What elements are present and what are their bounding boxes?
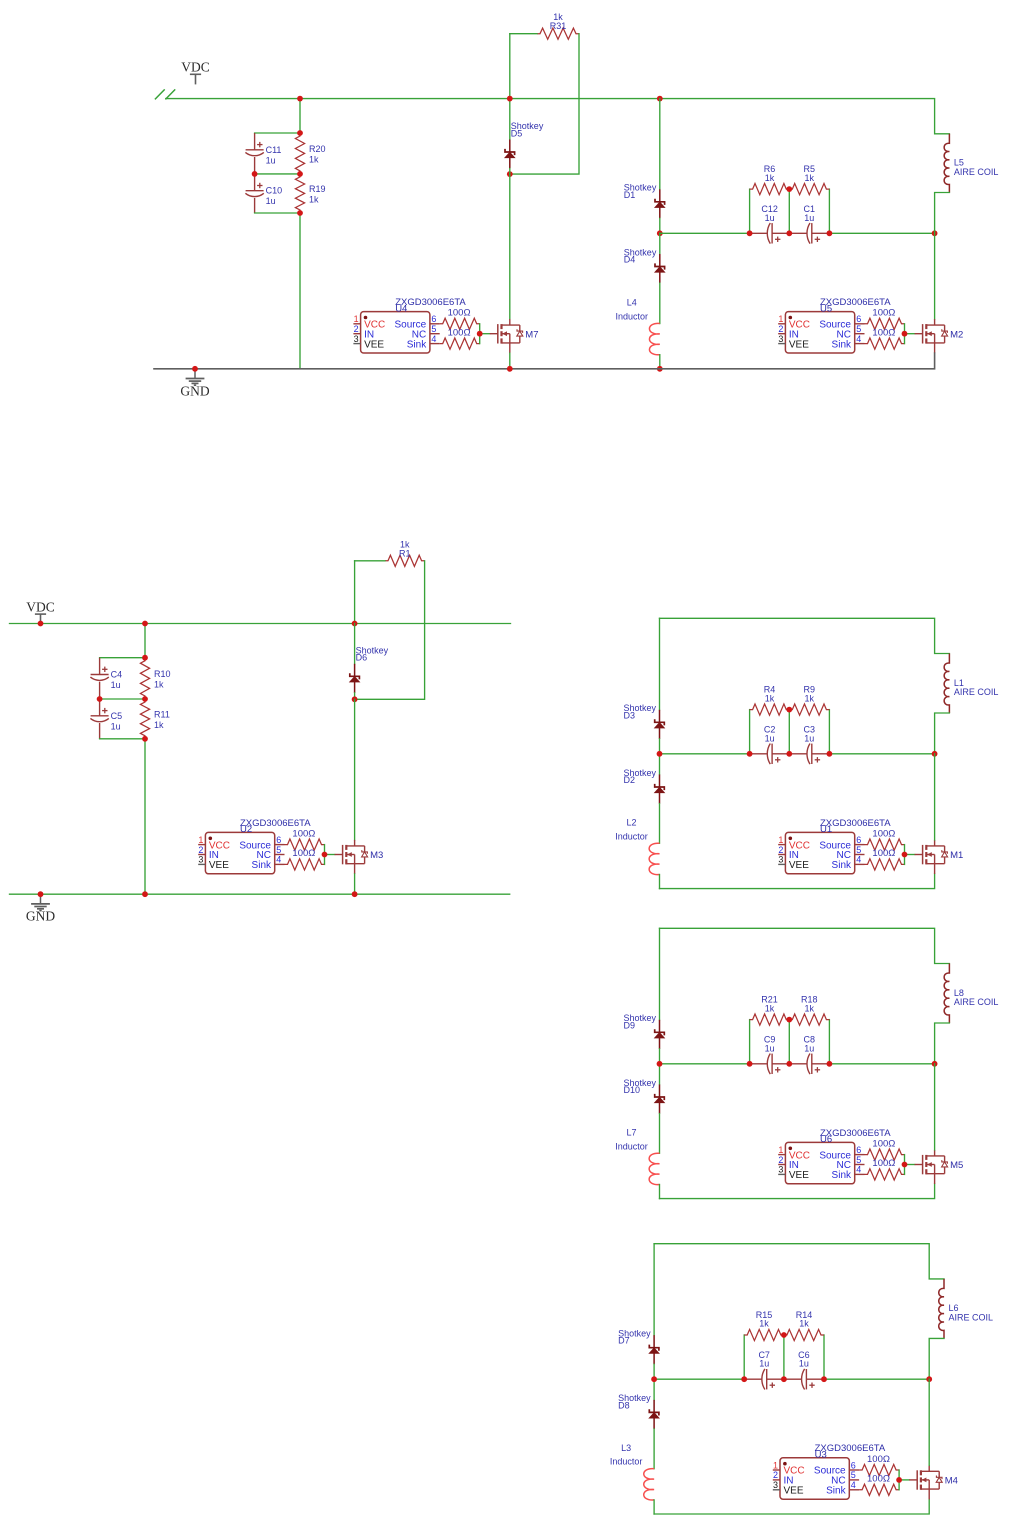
svg-text:L4: L4: [627, 298, 637, 308]
schottky diode D5: [505, 121, 544, 169]
svg-text:100Ω: 100Ω: [448, 327, 471, 338]
svg-text:1k: 1k: [799, 1319, 809, 1329]
svg-text:1u: 1u: [765, 1043, 775, 1053]
svg-text:D1: D1: [624, 190, 636, 200]
svg-text:L6: L6: [949, 1303, 959, 1313]
driver IC U3 (ZXGD3006E6TA): [773, 1443, 886, 1499]
resistor R_bot 100 ohm: [859, 1474, 899, 1496]
wire: [653, 1379, 655, 1400]
wire: [355, 561, 425, 700]
resistor R_bot 100 ohm: [865, 327, 905, 349]
svg-text:L2: L2: [626, 818, 636, 828]
resistor R21: [750, 994, 790, 1025]
schottky diode D6: [350, 645, 389, 693]
svg-text:5: 5: [276, 845, 281, 855]
wire: [928, 1379, 930, 1465]
wire: [828, 1020, 830, 1064]
wire: [354, 874, 356, 894]
wire: [654, 1499, 929, 1514]
wire: [905, 854, 915, 856]
wire: [934, 233, 936, 319]
junction: [142, 655, 148, 661]
svg-text:VEE: VEE: [789, 860, 809, 871]
svg-text:3: 3: [773, 1480, 778, 1490]
svg-text:R20: R20: [309, 144, 326, 154]
resistor R20: [295, 133, 325, 174]
svg-text:1u: 1u: [111, 680, 121, 690]
wire: [480, 333, 490, 335]
svg-text:1: 1: [778, 1145, 783, 1155]
wire - node VDC rail: [166, 99, 950, 134]
junction: [651, 1376, 657, 1382]
wire: [929, 1338, 944, 1379]
svg-text:1k: 1k: [309, 194, 319, 204]
svg-text:L7: L7: [626, 1128, 636, 1138]
svg-text:1k: 1k: [154, 720, 164, 730]
resistor R6: [750, 164, 790, 195]
wire: [255, 212, 300, 214]
schottky diode D8: [618, 1393, 659, 1429]
wire: [509, 169, 511, 175]
wire: [354, 693, 356, 699]
svg-text:D4: D4: [624, 255, 636, 265]
svg-text:4: 4: [856, 334, 861, 344]
resistor R31: [537, 12, 579, 39]
air coil L1: [944, 654, 998, 714]
resistor R11: [140, 699, 169, 739]
svg-text:D6: D6: [356, 653, 368, 663]
capacitor C5: [90, 699, 122, 739]
svg-text:100Ω: 100Ω: [872, 308, 895, 319]
power flag VDC: [26, 599, 55, 623]
junction: [741, 1376, 747, 1382]
wire: [828, 710, 830, 754]
wire: [510, 34, 579, 174]
wire: [659, 355, 661, 369]
resistor R18: [789, 994, 829, 1025]
wire: [934, 754, 936, 840]
inductor L7: [615, 1128, 659, 1185]
svg-text:Sink: Sink: [252, 860, 272, 871]
wire: [653, 1244, 655, 1336]
junction: [932, 230, 938, 236]
capacitor C8: [789, 1035, 829, 1074]
capacitor C1: [789, 204, 829, 243]
svg-text:U4: U4: [395, 303, 407, 314]
svg-text:1k: 1k: [805, 1003, 815, 1013]
wire: [660, 232, 750, 234]
junction: [192, 366, 198, 372]
junction: [902, 1162, 908, 1168]
junction: [38, 891, 44, 897]
junction: [297, 96, 303, 102]
wire: [100, 657, 145, 659]
junction: [252, 171, 258, 177]
wire - node GND rail: [154, 353, 935, 369]
svg-text:1u: 1u: [804, 213, 814, 223]
junction: [507, 96, 513, 102]
svg-text:VEE: VEE: [789, 339, 809, 350]
svg-text:U6: U6: [820, 1134, 832, 1145]
svg-text:1u: 1u: [765, 213, 775, 223]
wire: [829, 753, 934, 755]
capacitor C3: [789, 725, 829, 764]
junction: [896, 1477, 902, 1483]
junction: [786, 707, 792, 713]
svg-text:100Ω: 100Ω: [448, 308, 471, 319]
svg-text:100Ω: 100Ω: [872, 829, 895, 840]
svg-text:5: 5: [431, 324, 436, 334]
svg-text:6: 6: [431, 314, 436, 324]
wire: [659, 875, 661, 889]
svg-text:M1: M1: [950, 850, 963, 861]
wire: [788, 189, 790, 233]
svg-text:Inductor: Inductor: [616, 312, 649, 322]
svg-text:Inductor: Inductor: [615, 831, 648, 841]
wire: [935, 193, 950, 234]
transistor M4: [909, 1465, 958, 1499]
schottky diode D2: [624, 768, 665, 804]
svg-text:5: 5: [856, 324, 861, 334]
capacitor C4: [90, 658, 122, 699]
junction: [926, 1376, 932, 1382]
wire: [659, 754, 661, 775]
svg-text:Inductor: Inductor: [610, 1457, 643, 1467]
air coil L8: [944, 964, 998, 1024]
svg-text:M5: M5: [950, 1160, 963, 1171]
svg-text:1: 1: [354, 314, 359, 324]
inductor L4: [616, 298, 660, 355]
junction: [322, 852, 328, 858]
junction: [38, 621, 44, 627]
wire: [659, 233, 661, 254]
junction: [352, 621, 358, 627]
wire VDC rail 2: [10, 623, 511, 625]
wire: [355, 560, 385, 562]
transistor M7: [490, 319, 539, 353]
svg-text:VDC: VDC: [26, 599, 55, 614]
svg-text:C4: C4: [111, 670, 123, 680]
ground: [180, 369, 209, 399]
resistor R9: [789, 684, 829, 715]
capacitor C7: [744, 1350, 784, 1389]
svg-text:C11: C11: [266, 145, 282, 155]
transistor M5: [915, 1150, 964, 1184]
junction: [657, 230, 663, 236]
svg-text:D10: D10: [624, 1085, 641, 1095]
capacitor C9: [750, 1035, 790, 1074]
svg-text:U2: U2: [240, 824, 252, 835]
wire: [905, 333, 915, 335]
svg-text:D9: D9: [624, 1020, 636, 1030]
driver IC U4 (ZXGD3006E6TA): [353, 297, 466, 353]
driver IC U5 (ZXGD3006E6TA): [778, 297, 891, 353]
wire: [100, 738, 145, 740]
resistor R_top 100 ohm: [865, 1139, 905, 1161]
svg-text:1u: 1u: [111, 721, 121, 731]
wire: [144, 739, 146, 894]
wire: [325, 854, 335, 856]
wire: [660, 1184, 935, 1199]
wire: [904, 324, 906, 344]
svg-text:R19: R19: [309, 184, 326, 194]
junction: [781, 1376, 787, 1382]
svg-text:D8: D8: [618, 1400, 630, 1410]
junction: [747, 1061, 753, 1067]
svg-text:Sink: Sink: [407, 339, 427, 350]
wire: [100, 698, 145, 700]
air coil L6: [939, 1279, 993, 1339]
wire: [659, 739, 661, 754]
capacitor C2: [750, 725, 790, 764]
junction: [827, 230, 833, 236]
driver IC U1 (ZXGD3006E6TA): [778, 818, 891, 874]
transistor M2: [915, 319, 964, 353]
junction: [827, 1061, 833, 1067]
svg-text:C10: C10: [266, 186, 283, 196]
svg-text:1k: 1k: [765, 693, 775, 703]
ground: [26, 894, 55, 924]
wire: [510, 33, 537, 35]
svg-text:U1: U1: [820, 824, 832, 835]
junction: [932, 1061, 938, 1067]
junction: [786, 751, 792, 757]
junction: [747, 230, 753, 236]
wire: [660, 874, 935, 889]
wire: [935, 713, 950, 754]
capacitor C6: [784, 1350, 824, 1389]
wire: [659, 804, 661, 844]
transistor M3: [335, 840, 384, 874]
wire: [749, 189, 751, 233]
wire: [659, 1185, 661, 1199]
wire: [659, 218, 661, 233]
svg-text:3: 3: [778, 855, 783, 865]
svg-text:4: 4: [851, 1480, 856, 1490]
wire: [823, 1335, 825, 1379]
wire: [905, 1164, 915, 1166]
wire: [824, 1378, 929, 1380]
svg-text:1k: 1k: [765, 1003, 775, 1013]
junction: [657, 96, 663, 102]
svg-text:1: 1: [778, 835, 783, 845]
junction: [786, 230, 792, 236]
resistor R10: [140, 658, 170, 699]
svg-text:AIRE COIL: AIRE COIL: [954, 687, 999, 697]
schottky diode D1: [624, 183, 665, 219]
svg-text:U5: U5: [820, 303, 832, 314]
wire: [654, 1244, 944, 1279]
wire: [898, 1470, 900, 1490]
wire: [783, 1335, 785, 1379]
svg-text:100Ω: 100Ω: [867, 1474, 890, 1485]
resistor R4: [750, 684, 790, 715]
svg-text:M4: M4: [945, 1476, 958, 1487]
wire: [788, 1020, 790, 1064]
bus entry slashes: [155, 89, 165, 99]
svg-text:1k: 1k: [765, 173, 775, 183]
wire: [654, 1378, 744, 1380]
wire: [255, 132, 300, 134]
svg-text:100Ω: 100Ω: [872, 327, 895, 338]
inductor L2: [615, 818, 659, 875]
wire: [354, 561, 356, 624]
wire: [749, 1020, 751, 1064]
svg-text:3: 3: [778, 1165, 783, 1175]
svg-text:6: 6: [851, 1460, 856, 1470]
junction: [902, 852, 908, 858]
svg-text:L3: L3: [621, 1443, 631, 1453]
wire: [479, 324, 481, 344]
capacitor C12: [750, 204, 790, 243]
svg-text:1k: 1k: [309, 154, 319, 164]
wire: [660, 753, 750, 755]
svg-text:U3: U3: [815, 1450, 827, 1461]
svg-text:5: 5: [856, 845, 861, 855]
schottky diode D10: [624, 1078, 665, 1114]
svg-text:D5: D5: [511, 128, 523, 138]
wire: [829, 1063, 934, 1065]
resistor R_top 100 ohm: [440, 308, 480, 330]
svg-text:C5: C5: [111, 711, 123, 721]
wire: [904, 1155, 906, 1175]
resistor R_top 100 ohm: [285, 829, 325, 851]
driver IC U2 (ZXGD3006E6TA): [198, 818, 311, 874]
wire: [299, 99, 301, 133]
wire: [660, 1063, 750, 1065]
svg-text:3: 3: [778, 334, 783, 344]
svg-text:100Ω: 100Ω: [872, 848, 895, 859]
wire: [653, 1364, 655, 1379]
svg-text:1k: 1k: [154, 679, 164, 689]
junction: [297, 171, 303, 177]
svg-text:Sink: Sink: [832, 1170, 852, 1181]
junction: [507, 171, 513, 177]
junction: [786, 186, 792, 192]
svg-text:M7: M7: [525, 329, 538, 340]
svg-text:Sink: Sink: [832, 339, 852, 350]
svg-text:4: 4: [856, 855, 861, 865]
svg-text:1u: 1u: [266, 196, 276, 206]
resistor R_bot 100 ohm: [865, 1158, 905, 1180]
svg-text:1k: 1k: [805, 173, 815, 183]
junction: [97, 696, 103, 702]
svg-text:1u: 1u: [804, 1043, 814, 1053]
junction: [932, 751, 938, 757]
wire: [509, 353, 511, 369]
resistor R_top 100 ohm: [865, 308, 905, 330]
capacitor C10: [245, 174, 282, 213]
resistor R5: [789, 164, 829, 195]
junction: [352, 891, 358, 897]
wire: [255, 173, 300, 175]
resistor R_bot 100 ohm: [285, 848, 325, 870]
svg-text:6: 6: [276, 835, 281, 845]
svg-text:1k: 1k: [805, 693, 815, 703]
svg-text:1u: 1u: [266, 155, 276, 165]
junction: [142, 696, 148, 702]
wire: [659, 928, 661, 1020]
power flag VDC: [181, 60, 210, 85]
junction: [507, 366, 513, 372]
wire: [749, 710, 751, 754]
wire GND rail 2: [10, 893, 510, 895]
svg-text:100Ω: 100Ω: [867, 1454, 890, 1465]
svg-text:VEE: VEE: [784, 1486, 804, 1497]
svg-text:R11: R11: [154, 709, 170, 719]
svg-text:D2: D2: [624, 775, 636, 785]
wire: [659, 618, 661, 710]
wire: [934, 1064, 936, 1150]
wire: [935, 1023, 950, 1064]
wire: [828, 189, 830, 233]
wire: [509, 99, 511, 140]
resistor R14: [784, 1310, 824, 1341]
junction: [142, 891, 148, 897]
wire: [659, 1064, 661, 1085]
wire: [354, 699, 356, 840]
svg-text:5: 5: [851, 1470, 856, 1480]
svg-text:AIRE COIL: AIRE COIL: [954, 167, 999, 177]
svg-text:4: 4: [856, 1165, 861, 1175]
junction: [827, 751, 833, 757]
svg-text:R31: R31: [550, 21, 567, 31]
schottky diode D9: [624, 1013, 665, 1049]
svg-text:2: 2: [778, 324, 783, 334]
svg-text:1k: 1k: [400, 539, 410, 549]
svg-text:5: 5: [856, 1155, 861, 1165]
svg-text:1: 1: [778, 314, 783, 324]
junction: [781, 1332, 787, 1338]
svg-text:GND: GND: [180, 383, 209, 398]
junction: [786, 1017, 792, 1023]
resistor R_bot 100 ohm: [440, 327, 480, 349]
wire: [659, 1049, 661, 1064]
svg-text:1k: 1k: [553, 12, 563, 22]
svg-text:1: 1: [773, 1460, 778, 1470]
svg-text:1u: 1u: [759, 1359, 769, 1369]
svg-text:VDC: VDC: [181, 60, 210, 75]
junction: [902, 331, 908, 337]
resistor R1: [385, 539, 425, 566]
svg-text:R1: R1: [399, 548, 411, 558]
svg-text:1u: 1u: [804, 733, 814, 743]
svg-text:3: 3: [354, 334, 359, 344]
junction: [747, 751, 753, 757]
schottky diode D7: [618, 1329, 659, 1365]
svg-text:3: 3: [198, 855, 203, 865]
schottky diode D4: [624, 247, 665, 283]
junction: [297, 130, 303, 136]
svg-text:AIRE COIL: AIRE COIL: [954, 997, 999, 1007]
wire: [904, 845, 906, 865]
wire: [324, 845, 326, 865]
svg-text:4: 4: [276, 855, 281, 865]
svg-text:1: 1: [198, 835, 203, 845]
inductor L3: [610, 1443, 654, 1500]
junction: [477, 331, 483, 337]
wire: [299, 213, 301, 369]
svg-text:AIRE COIL: AIRE COIL: [949, 1313, 994, 1323]
svg-text:1u: 1u: [799, 1359, 809, 1369]
wire: [660, 618, 950, 653]
svg-text:VEE: VEE: [364, 339, 384, 350]
svg-text:VEE: VEE: [789, 1170, 809, 1181]
wire: [743, 1335, 745, 1379]
resistor R19: [295, 174, 325, 213]
svg-text:2: 2: [778, 1155, 783, 1165]
junction: [786, 1061, 792, 1067]
